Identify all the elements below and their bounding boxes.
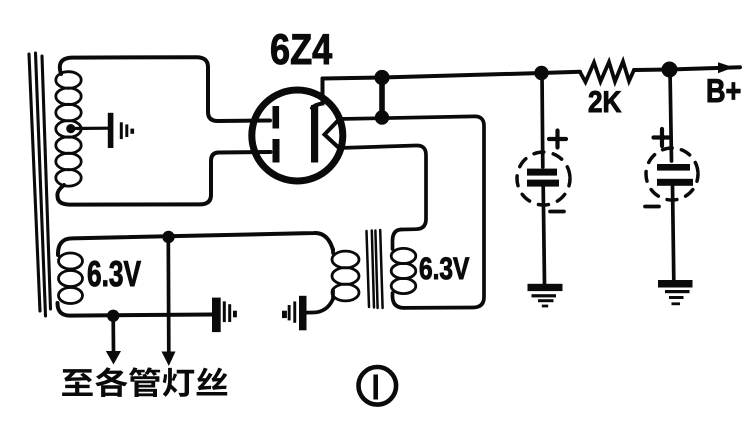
wire filament upper end through node B to T2 secondary bottom [339,116,484,308]
svg-text:2K: 2K [588,86,622,119]
figure number circled 1 [359,367,397,405]
capacitor C2 electrolytic dashed can [646,148,698,200]
svg-text:6Z4: 6Z4 [270,26,332,74]
node A on B+ rail [374,70,389,85]
wire resistor to B+ output [634,67,740,70]
tube filament heater V [325,120,340,149]
capacitor C1 minus sign [550,210,564,214]
ground (center tap, bars pointing right) [108,113,134,148]
tube plate 2 (bottom anode) [273,139,280,163]
wire 6.3V winding bottom to ground [58,303,213,316]
node B filament return [375,110,389,124]
transformer T1 HV secondary winding [56,72,81,186]
wire B+ rail tube to resistor [323,72,581,79]
transformer T2 secondary winding [391,248,416,293]
node F filament feed 2 [107,310,119,322]
tube cathode bar [311,105,318,163]
wire node D to capacitor C2 [670,70,672,162]
node C (first filter cap tap) [534,66,548,80]
wire center tap to ground [71,127,108,131]
transformer T2 core [367,230,383,308]
wire cathode top to B+ node [312,79,323,109]
transformer T1 6.3V filament winding [59,253,83,304]
wire 6.3V winding top to T2 primary top [58,233,333,255]
capacitor C1 electrolytic dashed can [517,152,570,205]
wire capacitor C2 to ground [673,186,674,281]
svg-text:B+: B+ [706,72,741,109]
wire HV winding bottom to plate 2 of tube [57,152,270,205]
wire node C to capacitor C1 [540,73,544,167]
resistor R1 2K [580,62,634,83]
rectifier tube V1 envelope [252,90,343,181]
ground (6.3V winding, bars pointing right) [212,298,237,333]
node D (second filter cap tap) [662,62,678,78]
wire capacitor C1 to ground [543,187,544,285]
transformer T1 core [29,53,51,316]
capacitor C1 plates [527,169,557,176]
wire T2 secondary top curve [393,230,402,250]
wire T2 primary ground stub [306,299,333,313]
wire joining node A and node B [379,78,385,118]
tube plate 1 (top anode) [273,106,280,129]
capacitor C2 plates [657,164,690,171]
ground (C2) [658,280,693,305]
ground (C1) [528,284,563,308]
arrow to other tube filaments (from node E) [166,237,170,353]
svg-text:6.3V: 6.3V [419,251,470,286]
svg-text:6.3V: 6.3V [87,253,141,294]
wire HV winding top to plate 1 of tube [60,57,270,121]
wire filament lower end to T2 secondary top [339,145,426,229]
ground (T2 primary, bars pointing left) [282,296,307,331]
wire T2 secondary bottom curve [393,293,405,308]
wire T2 primary winding curves [331,249,335,299]
node E filament feed 1 [162,231,174,243]
capacitor C1 plus sign [549,131,566,148]
B+ output arrowhead [718,62,734,73]
capacitor C2 plus sign [654,129,671,146]
arrow to other tube filaments (from node F) [111,316,115,352]
label: Chinese caption (to all tube filaments) [62,367,227,397]
transformer T2 primary winding [332,251,359,301]
node: HV winding center tap [66,124,75,133]
capacitor C2 minus sign [645,205,659,209]
